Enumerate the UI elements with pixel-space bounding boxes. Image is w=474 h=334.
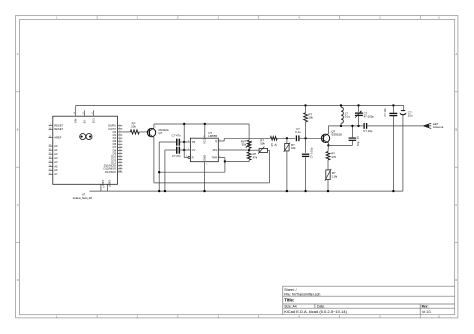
svg-text:C?: C?	[356, 135, 360, 139]
svg-text:D13/SCK: D13/SCK	[105, 170, 116, 174]
svg-text:A2: A2	[54, 152, 58, 156]
svg-text:0.1u: 0.1u	[295, 130, 301, 134]
svg-text:16: 16	[119, 164, 121, 166]
svg-text:2: 2	[188, 140, 189, 142]
svg-text:14: 14	[119, 158, 121, 160]
svg-text:Title:: Title:	[284, 298, 295, 303]
svg-text:47-100p: 47-100p	[364, 114, 375, 118]
svg-text:1: 1	[206, 164, 207, 166]
svg-text:RESET: RESET	[54, 123, 63, 127]
svg-text:A6: A6	[54, 168, 58, 172]
svg-text:Antenna: Antenna	[433, 125, 444, 129]
svg-text:12: 12	[119, 152, 121, 154]
svg-text:10p: 10p	[356, 141, 360, 146]
svg-text:A1: A1	[54, 148, 58, 152]
svg-text:0.1u: 0.1u	[345, 115, 351, 119]
svg-text:4: 4	[186, 156, 187, 158]
svg-text:AREF: AREF	[54, 135, 62, 139]
svg-text:VIN: VIN	[74, 119, 78, 124]
svg-text:Q?: Q?	[158, 131, 162, 135]
svg-text:C? 47n: C? 47n	[172, 133, 181, 137]
svg-text:C? 47n: C? 47n	[172, 154, 181, 158]
svg-text:50k: 50k	[260, 142, 265, 146]
svg-text:21: 21	[49, 153, 51, 155]
svg-text:Size: A4: Size: A4	[284, 305, 297, 309]
svg-text:9: 9	[119, 143, 120, 145]
svg-text:23: 23	[49, 161, 51, 163]
svg-text:10k: 10k	[131, 124, 136, 128]
svg-text:CV: CV	[192, 148, 196, 152]
svg-text:RESET: RESET	[54, 127, 63, 131]
svg-text:28: 28	[49, 128, 51, 130]
svg-text:A3: A3	[54, 156, 58, 160]
svg-text:Arduino_Nano_R3: Arduino_Nano_R3	[73, 197, 93, 200]
svg-text:10k: 10k	[291, 146, 296, 150]
svg-text:TR: TR	[192, 140, 196, 144]
svg-text:KiCad E.D.A. kicad (5.0.2-5~1: KiCad E.D.A. kicad (5.0.2-5~10.14)	[284, 309, 347, 314]
svg-text:8: 8	[119, 140, 120, 142]
svg-text:31: 31	[119, 170, 121, 172]
svg-text:C: C	[455, 204, 457, 207]
svg-text:Q: Q	[215, 139, 217, 143]
svg-text:5V: 5V	[83, 120, 87, 123]
svg-text:8: 8	[203, 136, 204, 138]
svg-text:Rev:: Rev:	[422, 305, 429, 309]
svg-text:25: 25	[49, 169, 51, 171]
svg-text:D: D	[17, 279, 19, 282]
svg-text:470: 470	[331, 155, 336, 159]
svg-text:47k: 47k	[253, 155, 258, 159]
svg-text:1: 1	[119, 127, 120, 129]
svg-text:11: 11	[119, 149, 121, 151]
svg-text:3V3: 3V3	[91, 118, 95, 123]
svg-text:Sheet: /: Sheet: /	[284, 288, 296, 292]
svg-text:29: 29	[102, 186, 104, 188]
svg-text:22: 22	[49, 157, 51, 159]
svg-text:C? 10p: C? 10p	[363, 129, 372, 133]
svg-text:5: 5	[188, 148, 189, 150]
svg-text:26: 26	[49, 173, 51, 175]
svg-text:A4: A4	[54, 160, 58, 164]
svg-text:7: 7	[119, 137, 120, 139]
svg-text:1: 1	[155, 127, 156, 129]
svg-text:18: 18	[49, 136, 51, 138]
svg-text:30: 30	[74, 112, 76, 114]
svg-text:50k: 50k	[242, 143, 247, 147]
svg-text:DIS: DIS	[213, 148, 218, 152]
svg-text:3: 3	[50, 124, 51, 126]
svg-text:10k: 10k	[308, 116, 313, 120]
svg-text:C: C	[17, 204, 19, 207]
svg-text:30: 30	[119, 167, 121, 169]
svg-text:A7: A7	[54, 172, 58, 176]
svg-text:4: 4	[109, 186, 111, 187]
svg-text:VCC: VCC	[203, 138, 207, 144]
svg-text:10: 10	[119, 146, 121, 148]
svg-text:GND: GND	[202, 155, 206, 161]
svg-text:27: 27	[83, 112, 85, 114]
svg-text:D: D	[455, 279, 457, 282]
svg-text:Date:: Date:	[317, 305, 325, 309]
svg-text:10u: 10u	[408, 114, 413, 118]
svg-text:5: 5	[119, 130, 120, 132]
svg-text:THR: THR	[212, 156, 218, 160]
svg-text:R: R	[192, 155, 194, 159]
svg-text:20: 20	[49, 149, 51, 151]
svg-text:A5: A5	[54, 164, 58, 168]
svg-text:LM555: LM555	[208, 134, 217, 138]
svg-text:19: 19	[49, 145, 51, 147]
svg-text:C? 0.01u: C? 0.01u	[310, 147, 314, 158]
svg-text:1: 1	[330, 132, 331, 134]
svg-text:17: 17	[92, 112, 94, 114]
svg-text:15: 15	[119, 161, 121, 163]
svg-text:24: 24	[49, 165, 51, 167]
svg-text:2: 2	[119, 124, 120, 126]
svg-text:SS9018: SS9018	[331, 133, 342, 137]
svg-text:1.8k: 1.8k	[332, 175, 338, 179]
svg-text:13: 13	[119, 155, 121, 157]
svg-text:C? 10n: C? 10n	[383, 108, 387, 117]
svg-text:6: 6	[119, 134, 120, 136]
svg-text:File: fmTransmitter.sch: File: fmTransmitter.sch	[284, 293, 320, 297]
svg-text:Id: 1/1: Id: 1/1	[422, 310, 431, 314]
svg-text:A0: A0	[54, 144, 58, 148]
